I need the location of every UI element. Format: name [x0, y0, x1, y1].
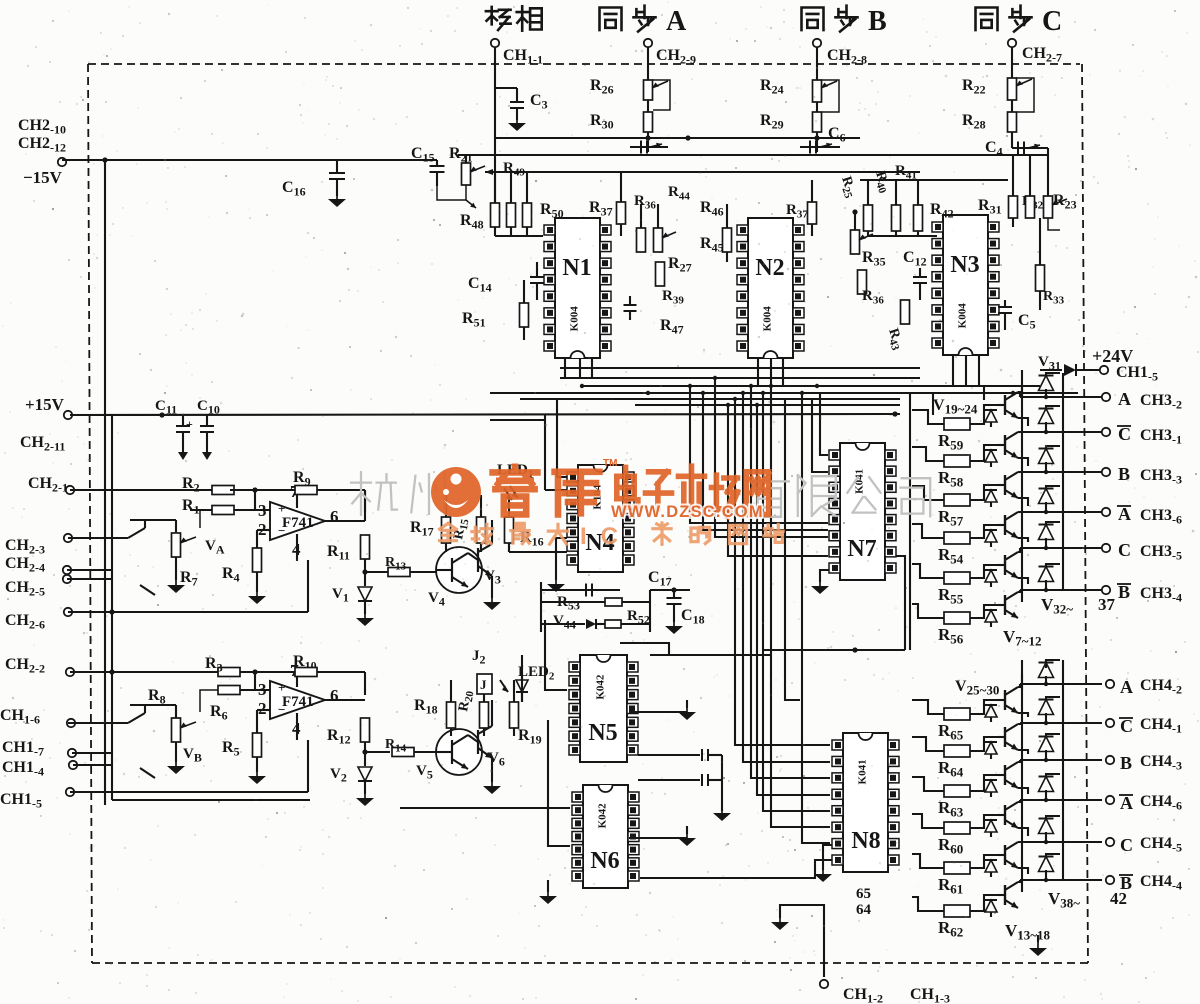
svg-text:C: C [1118, 424, 1131, 444]
svg-text:C: C [1042, 6, 1062, 37]
svg-text:K042: K042 [597, 803, 609, 829]
svg-text:64: 64 [856, 902, 872, 918]
svg-text:+: + [278, 680, 285, 695]
svg-text:K004: K004 [762, 306, 774, 332]
svg-text:A: A [666, 6, 687, 37]
svg-text:N5: N5 [588, 720, 617, 746]
svg-text:N7: N7 [847, 536, 876, 562]
svg-text:C: C [1120, 716, 1133, 736]
svg-text:C: C [1120, 835, 1133, 855]
svg-text:K004: K004 [957, 303, 969, 329]
svg-text:N2: N2 [755, 255, 784, 281]
svg-text:+24V: +24V [1092, 346, 1133, 366]
svg-text:N8: N8 [851, 828, 880, 854]
svg-text:WWW.DZSC.COM: WWW.DZSC.COM [611, 503, 764, 521]
svg-text:37: 37 [1098, 595, 1116, 614]
svg-text:A: A [1118, 504, 1131, 524]
svg-text:6: 6 [330, 507, 339, 526]
svg-text:IC: IC [580, 523, 632, 550]
svg-text:K004: K004 [569, 306, 581, 332]
svg-text:+: + [278, 501, 285, 516]
svg-text:A: A [1118, 389, 1131, 409]
svg-text:F741: F741 [282, 515, 314, 531]
svg-text:K041: K041 [857, 759, 869, 784]
svg-text:A: A [1120, 793, 1133, 813]
svg-text:J: J [480, 677, 487, 692]
svg-text:65: 65 [856, 886, 871, 902]
svg-text:N6: N6 [590, 848, 619, 874]
svg-text:6: 6 [330, 686, 339, 705]
svg-text:N1: N1 [562, 255, 591, 281]
svg-text:42: 42 [1110, 889, 1127, 908]
svg-text:B: B [1118, 582, 1130, 602]
svg-text:K104: K104 [592, 484, 604, 510]
svg-text:B: B [1120, 753, 1132, 773]
svg-text:TM: TM [603, 458, 617, 469]
svg-text:C: C [1118, 540, 1131, 560]
svg-text:N3: N3 [950, 252, 979, 278]
svg-text:+: + [186, 417, 193, 431]
svg-text:+15V: +15V [25, 395, 65, 414]
svg-text:−15V: −15V [23, 168, 63, 187]
svg-text:F741: F741 [282, 694, 314, 710]
svg-text:2: 2 [258, 699, 267, 718]
svg-text:B: B [868, 6, 887, 37]
